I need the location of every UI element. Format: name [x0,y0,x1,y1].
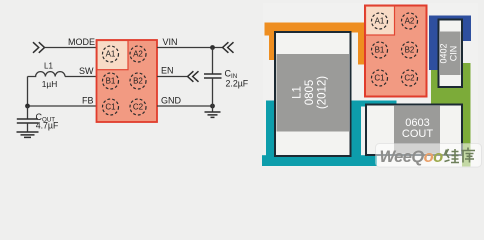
wire vertical left [27,77,29,107]
wire EN [157,76,188,78]
svg-text:WeeQoo: WeeQoo [380,148,444,166]
copper pour VIN (blue) [429,16,471,71]
wire GND [157,105,213,107]
wire GND to ground [212,106,214,112]
wire VIN [157,47,223,49]
copper pour SW (orange) [265,23,366,65]
svg-text:A1: A1 [106,50,116,59]
capacitor COUT [17,119,38,123]
watermark box [376,144,482,168]
svg-text:EN: EN [161,66,174,76]
svg-text:B2: B2 [405,46,415,55]
svg-text:GND: GND [161,96,182,106]
wire COUT to ground [27,123,29,132]
wire FB [28,105,97,107]
IC U1 body [97,40,158,122]
pad A1 marker square [366,6,395,35]
connector chevron EN [188,71,199,82]
inductor L1 [28,72,66,77]
svg-text:1µH: 1µH [42,79,58,89]
svg-text:A2: A2 [405,17,415,26]
svg-text:0603: 0603 [405,117,429,129]
junction node GND [210,104,215,109]
pad C2 [402,70,418,86]
svg-text:B2: B2 [133,77,143,86]
wire SW [65,76,97,78]
svg-text:C2: C2 [404,74,415,83]
watermark CJK 维库 [445,148,476,163]
component COUT footprint outline [366,105,462,156]
pad B2 [402,42,418,58]
copper pour VOUT (teal) [262,101,397,167]
pin B2 [130,73,146,89]
pin A1 [103,46,119,62]
board background [263,3,478,167]
svg-text:B1: B1 [106,77,116,86]
pin A2 [130,46,146,62]
ground symbol right [205,112,221,117]
wire MODE [45,47,97,49]
pad A2 [402,13,418,29]
connector chevron MODE input [33,42,45,53]
copper pour GND (green) [431,63,471,155]
junction node FB/COUT [25,104,30,109]
wire CIN top [212,48,214,74]
connector chevron VIN [223,42,234,53]
pin B1 [103,73,119,89]
wire to COUT [27,106,29,119]
wire CIN bottom [212,78,214,106]
component L1 body [277,54,350,132]
svg-text:A2: A2 [133,50,143,59]
svg-text:0402CIN: 0402CIN [439,43,459,63]
ground symbol left [17,132,39,137]
pin C1 [103,99,119,115]
svg-text:L1: L1 [44,62,53,71]
svg-text:C2: C2 [133,103,144,112]
svg-text:C1: C1 [105,103,116,112]
svg-text:B1: B1 [375,46,385,55]
junction node VIN [210,45,215,50]
svg-text:4.7µF: 4.7µF [36,121,59,131]
svg-text:C1: C1 [374,74,385,83]
component COUT body [394,106,440,154]
svg-text:MODE: MODE [68,37,95,47]
pad B1 [372,42,388,58]
component CIN body [440,32,461,76]
svg-text:SW: SW [79,66,94,76]
svg-text:VIN: VIN [163,37,178,47]
pad C1 [372,70,388,86]
component L1 footprint outline [275,32,351,156]
svg-text:A1: A1 [375,17,385,26]
pin A1 marker square [97,41,128,70]
svg-text:2.2µF: 2.2µF [226,79,249,89]
IC U1 footprint courtyard [365,6,427,97]
capacitor CIN [204,74,222,78]
svg-text:COUT: COUT [402,128,433,140]
pad A1 [372,13,388,29]
component CIN footprint outline [439,20,463,88]
pin C2 [130,99,146,115]
svg-text:FB: FB [82,96,94,106]
